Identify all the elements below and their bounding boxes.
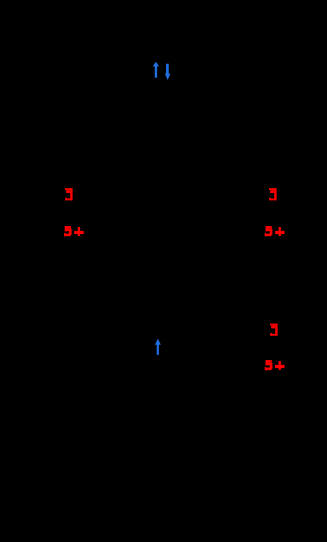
electron spin-up arrow (top orbital pair, left): [153, 62, 160, 78]
electron spin-down arrow (top orbital pair, right): [165, 64, 171, 80]
oxidation state label 3 (left): [65, 188, 73, 200]
oxidation state label 3 (right upper): [269, 188, 277, 200]
single electron spin-up arrow (bottom orbital): [155, 339, 161, 355]
charge label 5+ (left): [64, 226, 84, 236]
oxidation state label 3 (right lower): [270, 324, 278, 336]
charge label 5+ (right lower): [265, 360, 285, 370]
charge label 5+ (right upper): [265, 226, 285, 236]
